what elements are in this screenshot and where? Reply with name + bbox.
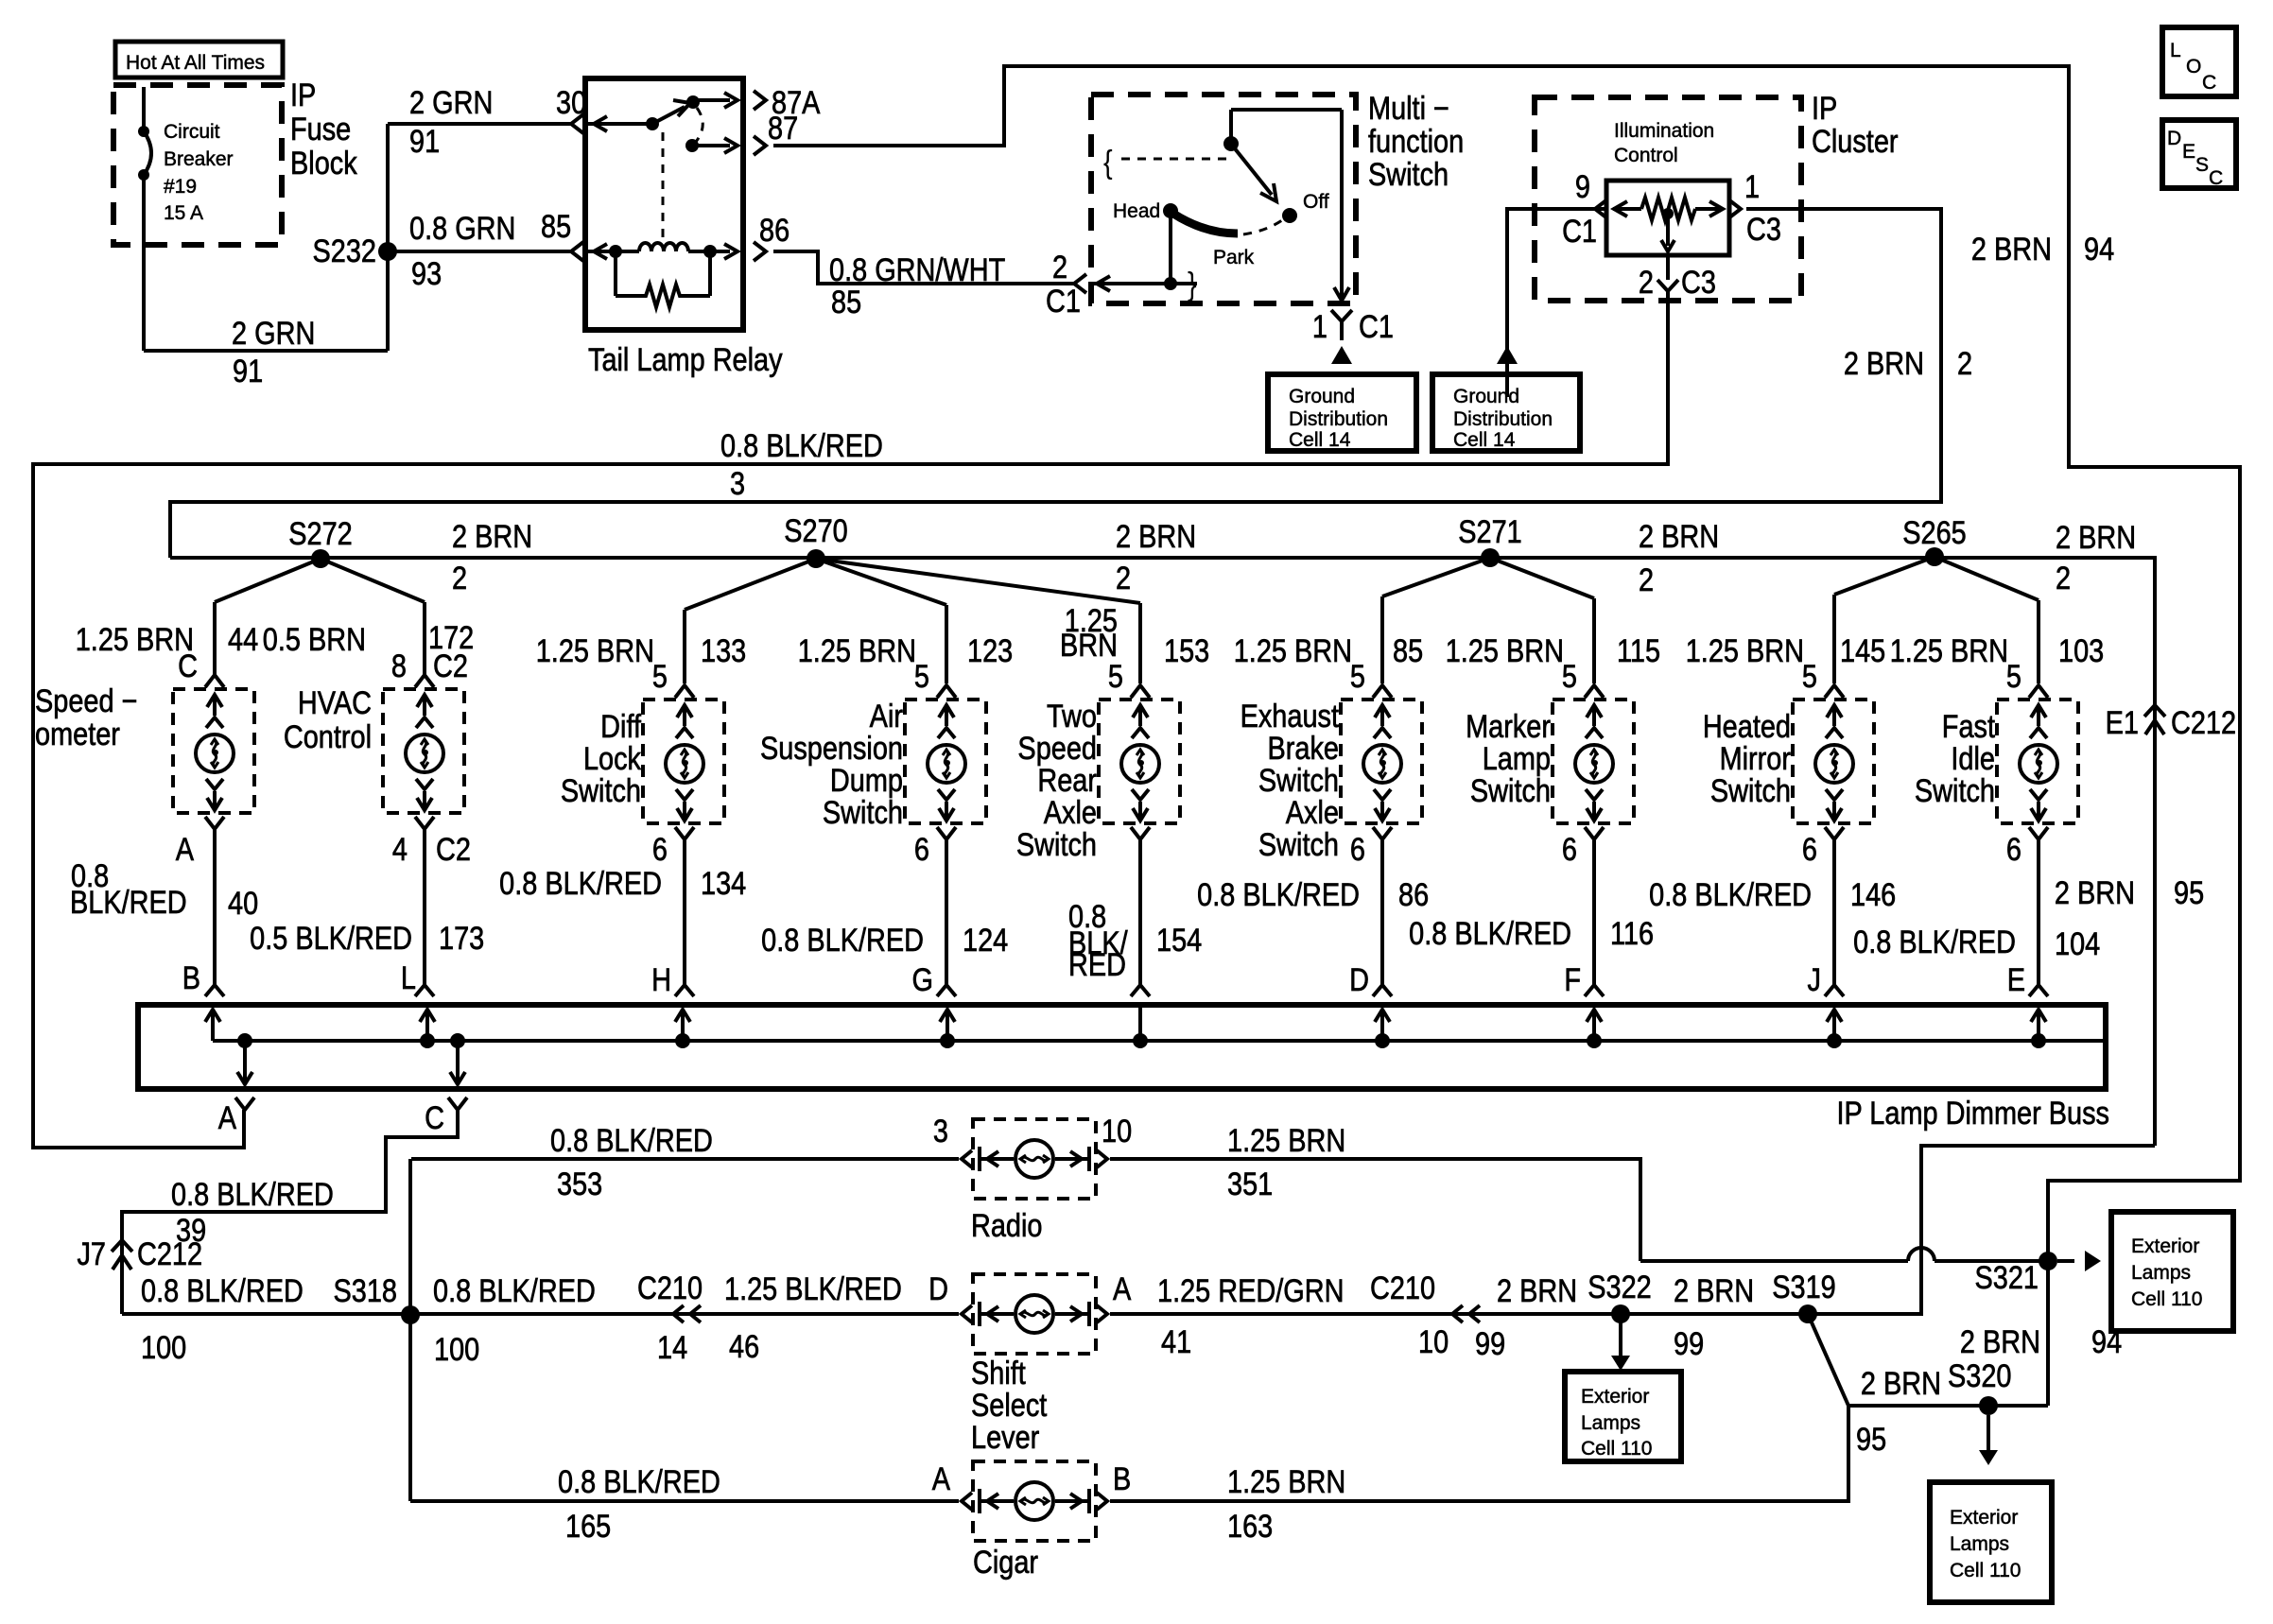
- wire from relay 87 across top: [773, 66, 2240, 1261]
- IP Fuse Block dashed box: [113, 85, 282, 245]
- wire 0.8 BLK/RED 165: [410, 1499, 959, 1503]
- wire 0.8 GRN/WHT 85: [773, 251, 1074, 284]
- connector J7 C212: [112, 1240, 132, 1252]
- svg-text:0.5 BLK/RED: 0.5 BLK/RED: [250, 920, 412, 957]
- ground triangle to left ground box: [1331, 346, 1352, 364]
- svg-text:123: 123: [967, 632, 1013, 669]
- svg-text:3: 3: [730, 465, 745, 502]
- svg-text:Marker: Marker: [1466, 708, 1551, 745]
- svg-text:Lamps: Lamps: [2131, 1262, 2191, 1284]
- svg-text:2 BRN: 2 BRN: [1844, 345, 1924, 382]
- svg-text:E: E: [2182, 141, 2195, 163]
- svg-text:2 GRN: 2 GRN: [232, 315, 315, 352]
- svg-text:Circuit: Circuit: [164, 121, 220, 143]
- svg-text:1.25 BRN: 1.25 BRN: [1227, 1463, 1345, 1500]
- connector C below buss: [448, 1097, 467, 1110]
- potentiometer resistor: [1613, 207, 1641, 211]
- connector A below buss: [235, 1097, 254, 1110]
- svg-text:2: 2: [1639, 264, 1654, 301]
- svg-text:E1: E1: [2106, 704, 2139, 741]
- svg-text:C1: C1: [1359, 308, 1394, 345]
- dimmer buss feed arrow x=1002: [946, 1011, 949, 1041]
- fast idle switch lamp: [1997, 700, 2078, 823]
- wire S270 to diff lock: [685, 559, 816, 610]
- svg-text:116: 116: [1610, 915, 1654, 952]
- svg-text:1: 1: [1312, 308, 1327, 345]
- wire S319 up to E1/C212 riser: [1808, 1146, 2155, 1314]
- svg-text:145: 145: [1840, 632, 1885, 669]
- svg-text:BRN: BRN: [1060, 627, 1118, 664]
- splice S271: [1481, 548, 1500, 567]
- IP Lamp Dimmer Buss box: [138, 1005, 2106, 1089]
- svg-text:Exhaust: Exhaust: [1241, 698, 1340, 734]
- svg-text:6: 6: [1350, 831, 1365, 868]
- svg-text:Lamps: Lamps: [1581, 1412, 1640, 1434]
- svg-text:function: function: [1368, 123, 1464, 160]
- svg-text:Hot At All Times: Hot At All Times: [126, 52, 265, 74]
- svg-text:Switch: Switch: [1368, 156, 1449, 193]
- svg-text:J: J: [1808, 961, 1821, 998]
- pot pin 2 C3 connector: [1666, 255, 1670, 280]
- svg-text:2 BRN: 2 BRN: [1960, 1323, 2040, 1360]
- shift select lever lamp: [962, 1274, 1107, 1354]
- svg-text:2 BRN: 2 BRN: [1674, 1272, 1754, 1309]
- svg-text:Lever: Lever: [971, 1419, 1039, 1456]
- svg-text:S321: S321: [1975, 1259, 2039, 1296]
- svg-text:Shift: Shift: [971, 1355, 1026, 1391]
- pot pin 9 C1: [1595, 199, 1607, 218]
- connectors above IP lamp dimmer buss: [205, 985, 224, 996]
- mfs Head contact: [1169, 211, 1172, 284]
- dimmer buss feed arrow x=452: [425, 1011, 429, 1041]
- wire S270 to air suspension: [816, 559, 946, 605]
- mfs dashed detent line and brace: [1121, 158, 1228, 161]
- svg-text:IP: IP: [290, 77, 316, 113]
- svg-text:Exterior: Exterior: [2131, 1235, 2199, 1257]
- svg-text:L: L: [2170, 40, 2181, 61]
- svg-text:A: A: [932, 1460, 950, 1497]
- svg-text:Cell 110: Cell 110: [1950, 1560, 2021, 1581]
- svg-text:0.8 BLK/RED: 0.8 BLK/RED: [720, 427, 883, 464]
- svg-text:Park: Park: [1213, 247, 1255, 268]
- node S322: [1611, 1304, 1630, 1323]
- svg-text:1.25 BRN: 1.25 BRN: [798, 632, 916, 669]
- svg-text:0.8 BLK/RED: 0.8 BLK/RED: [499, 865, 662, 902]
- svg-text:}: }: [1188, 266, 1197, 302]
- svg-text:C1: C1: [1562, 213, 1597, 250]
- relay pin 30: [571, 114, 583, 133]
- svg-text:86: 86: [759, 212, 789, 249]
- circuit breaker CB#19: [142, 87, 146, 131]
- svg-text:B: B: [1113, 1460, 1131, 1497]
- svg-text:D: D: [2167, 128, 2181, 149]
- svg-text:Axle: Axle: [1286, 794, 1339, 831]
- svg-text:Suspension: Suspension: [760, 730, 903, 767]
- svg-text:353: 353: [557, 1166, 602, 1202]
- svg-text:ometer: ometer: [35, 716, 120, 752]
- svg-text:104: 104: [2055, 925, 2100, 962]
- svg-text:41: 41: [1161, 1323, 1191, 1360]
- svg-text:2 BRN: 2 BRN: [2056, 519, 2136, 556]
- svg-text:Block: Block: [290, 145, 357, 181]
- svg-text:6: 6: [1562, 831, 1577, 868]
- svg-text:A: A: [176, 831, 194, 868]
- two speed rear axle switch lamp: [1099, 700, 1180, 823]
- svg-text:2: 2: [1639, 561, 1654, 598]
- Illumination Control potentiometer box: [1606, 181, 1729, 255]
- svg-text:Mirror: Mirror: [1720, 740, 1791, 777]
- svg-text:Diff: Diff: [600, 708, 641, 745]
- svg-text:Switch: Switch: [1016, 826, 1097, 863]
- wire S272 to speedometer: [215, 559, 321, 602]
- svg-text:Cell 110: Cell 110: [1581, 1438, 1653, 1460]
- svg-text:4: 4: [392, 831, 408, 868]
- S321 arrow to exterior lamps: [2057, 1259, 2074, 1263]
- svg-text:L: L: [401, 959, 416, 996]
- svg-text:Head: Head: [1113, 200, 1160, 222]
- svg-text:C2: C2: [436, 831, 471, 868]
- HVAC Control lamp: [383, 689, 464, 813]
- svg-text:1.25 BRN: 1.25 BRN: [76, 621, 194, 658]
- svg-text:103: 103: [2058, 632, 2104, 669]
- svg-text:S270: S270: [784, 512, 847, 549]
- svg-text:2 BRN: 2 BRN: [1861, 1365, 1941, 1402]
- svg-text:172: 172: [428, 619, 474, 656]
- svg-text:100: 100: [434, 1331, 479, 1368]
- svg-text:0.8 BLK/RED: 0.8 BLK/RED: [1409, 915, 1571, 952]
- svg-text:94: 94: [2084, 231, 2114, 268]
- svg-text:Switch: Switch: [823, 794, 903, 831]
- relay coil pins 85-86: [571, 242, 583, 261]
- dimmer buss feed arrow x=1462: [1380, 1011, 1384, 1041]
- exhaust brake switch lamp: [1341, 700, 1422, 823]
- svg-text:Air: Air: [870, 698, 903, 734]
- svg-text:0.8 GRN: 0.8 GRN: [409, 210, 515, 247]
- cigar lamp: [962, 1461, 1107, 1541]
- wire S271 to exhaust brake: [1382, 558, 1490, 596]
- svg-text:0.8 BLK/RED: 0.8 BLK/RED: [550, 1122, 713, 1159]
- svg-text:Control: Control: [284, 718, 372, 755]
- svg-text:G: G: [912, 961, 933, 998]
- wire S321 down to S320 (2 BRN 94): [2046, 1261, 2050, 1406]
- svg-text:124: 124: [963, 922, 1008, 959]
- svg-text:85: 85: [831, 284, 861, 320]
- svg-text:Heated: Heated: [1703, 708, 1791, 745]
- svg-text:8: 8: [391, 648, 407, 684]
- svg-text:91: 91: [233, 353, 263, 389]
- potentiometer wiper: [1662, 208, 1674, 219]
- svg-text:Distribution: Distribution: [1453, 408, 1553, 430]
- dashed link armature to 87: [696, 108, 703, 142]
- dimmer buss feed arrow x=1686: [1592, 1011, 1596, 1041]
- svg-text:A: A: [1113, 1270, 1131, 1307]
- svg-text:15 A: 15 A: [164, 202, 203, 224]
- node S319: [1798, 1304, 1817, 1323]
- svg-text:E: E: [2007, 961, 2025, 998]
- node S232: [386, 124, 390, 351]
- svg-text:Select: Select: [971, 1387, 1048, 1424]
- svg-text:95: 95: [1856, 1421, 1886, 1458]
- svg-text:Radio: Radio: [971, 1207, 1043, 1244]
- svg-text:Switch: Switch: [1915, 772, 1995, 809]
- svg-text:1.25 BRN: 1.25 BRN: [1227, 1122, 1345, 1159]
- Hot At All Times header box: [115, 42, 283, 78]
- svg-text:0.8 BLK/RED: 0.8 BLK/RED: [433, 1272, 596, 1309]
- marker lamp switch lamp: [1553, 700, 1634, 823]
- wire 1.25 BRN 351: [1110, 1159, 1640, 1261]
- svg-text:C: C: [425, 1099, 444, 1136]
- dimmer buss output arrow C: [456, 1041, 460, 1081]
- svg-text:351: 351: [1227, 1166, 1273, 1202]
- svg-text:Switch: Switch: [1258, 826, 1339, 863]
- Multi-function Switch dashed box: [1091, 95, 1356, 303]
- mfs dashed arc Park-Off: [1243, 220, 1282, 234]
- svg-text:Speed −: Speed −: [35, 682, 137, 719]
- relay plunger dashed: [662, 132, 665, 238]
- mfs Off contact: [1282, 208, 1297, 223]
- svg-text:2: 2: [1116, 560, 1131, 596]
- svg-text:115: 115: [1617, 632, 1660, 669]
- svg-text:Exterior: Exterior: [1950, 1507, 2018, 1529]
- svg-text:146: 146: [1850, 876, 1896, 913]
- wire S271 to marker lamp: [1490, 558, 1594, 598]
- wire 1.25 BRN 163: [1110, 1406, 1848, 1501]
- svg-text:O: O: [2186, 56, 2201, 78]
- relay resistor: [614, 251, 617, 296]
- heated mirror switch lamp: [1793, 700, 1874, 823]
- connector E1 C212: [2144, 705, 2165, 717]
- svg-text:5: 5: [652, 658, 668, 695]
- svg-text:Cell 14: Cell 14: [1453, 429, 1516, 451]
- svg-text:C3: C3: [1681, 264, 1716, 301]
- svg-text:C: C: [2202, 72, 2216, 94]
- svg-text:RED: RED: [1068, 946, 1126, 983]
- wire 0.8 GRN 93 to relay pin 85: [388, 250, 571, 253]
- svg-text:Breaker: Breaker: [164, 148, 234, 170]
- svg-text:1.25 BRN: 1.25 BRN: [1234, 632, 1352, 669]
- svg-text:0.5 BRN: 0.5 BRN: [263, 621, 366, 658]
- Exterior Lamps Cell 110 box (S322): [1565, 1372, 1681, 1461]
- svg-text:9: 9: [1575, 168, 1590, 205]
- svg-text:Switch: Switch: [1258, 762, 1339, 799]
- svg-text:1.25 BLK/RED: 1.25 BLK/RED: [724, 1270, 902, 1307]
- splice S265: [1925, 547, 1944, 566]
- svg-text:Cell 14: Cell 14: [1289, 429, 1351, 451]
- Exterior Lamps Cell 110 box (S320): [1930, 1482, 2052, 1602]
- svg-text:Lamps: Lamps: [1950, 1533, 2009, 1555]
- speedometer lamp: [173, 689, 254, 813]
- svg-text:87: 87: [768, 110, 798, 147]
- svg-text:Switch: Switch: [1710, 772, 1791, 809]
- svg-text:C: C: [2209, 167, 2223, 189]
- node S321: [2039, 1252, 2057, 1270]
- svg-text:Tail Lamp Relay: Tail Lamp Relay: [588, 341, 783, 378]
- svg-text:2 BRN: 2 BRN: [1639, 518, 1719, 555]
- svg-text:40: 40: [228, 885, 258, 922]
- svg-text:C3: C3: [1746, 211, 1781, 248]
- svg-text:{: {: [1103, 144, 1113, 181]
- radio lamp: [962, 1119, 1107, 1199]
- svg-text:B: B: [182, 959, 200, 996]
- svg-text:6: 6: [914, 831, 929, 868]
- relay contact 87: [685, 139, 699, 152]
- svg-text:Two: Two: [1047, 698, 1097, 734]
- svg-text:1.25 BRN: 1.25 BRN: [1686, 632, 1804, 669]
- svg-text:#19: #19: [164, 176, 197, 198]
- two speed axle column pass-through: [1138, 1005, 1142, 1041]
- 2 BRN bus: [170, 558, 2155, 1146]
- splice S270: [807, 549, 825, 568]
- svg-text:2: 2: [1052, 249, 1067, 285]
- svg-text:C212: C212: [2171, 704, 2236, 741]
- svg-text:Cigar: Cigar: [973, 1544, 1038, 1581]
- svg-text:1: 1: [1744, 168, 1760, 205]
- dimmer buss output arrow A: [243, 1041, 247, 1081]
- relay switch armature: [652, 107, 685, 124]
- wire 2 GRN 91 (top) to relay pin 30: [388, 122, 571, 126]
- svg-text:44: 44: [228, 621, 258, 658]
- wire S265 to fast idle: [1935, 557, 2039, 600]
- svg-text:C210: C210: [1370, 1270, 1435, 1306]
- dimmer buss feed arrow x=225: [211, 1011, 215, 1041]
- svg-text:S322: S322: [1588, 1269, 1651, 1305]
- svg-text:5: 5: [1350, 658, 1365, 695]
- svg-text:134: 134: [701, 865, 746, 902]
- svg-text:Lamp: Lamp: [1483, 740, 1551, 777]
- svg-text:6: 6: [652, 831, 668, 868]
- svg-text:5: 5: [2006, 658, 2021, 695]
- svg-text:Ground: Ground: [1289, 386, 1355, 407]
- svg-text:S318: S318: [334, 1272, 397, 1309]
- relay contact 87A: [686, 95, 700, 109]
- svg-text:2: 2: [2056, 560, 2071, 596]
- wire S270 to two speed axle: [816, 559, 1140, 603]
- air suspension dump switch lamp: [905, 700, 986, 823]
- svg-text:99: 99: [1475, 1325, 1505, 1362]
- svg-text:0.8 GRN/WHT: 0.8 GRN/WHT: [829, 251, 1005, 288]
- svg-text:6: 6: [2006, 831, 2021, 868]
- svg-text:0.8 BLK/RED: 0.8 BLK/RED: [1853, 924, 2016, 960]
- wire 2 BRN (S320 row): [1848, 1404, 2048, 1408]
- svg-text:S320: S320: [1948, 1357, 2011, 1394]
- svg-text:HVAC: HVAC: [298, 684, 372, 721]
- svg-text:Rear: Rear: [1037, 762, 1097, 799]
- svg-text:Switch: Switch: [1470, 772, 1551, 809]
- svg-text:91: 91: [409, 123, 440, 160]
- svg-text:133: 133: [701, 632, 746, 669]
- svg-text:10: 10: [1418, 1323, 1449, 1360]
- svg-text:0.8 BLK/RED: 0.8 BLK/RED: [558, 1463, 720, 1500]
- svg-text:Control: Control: [1614, 145, 1678, 166]
- svg-text:5: 5: [1802, 658, 1817, 695]
- svg-text:2: 2: [1957, 345, 1972, 382]
- svg-text:D: D: [1349, 961, 1369, 998]
- LOC box: [2162, 27, 2236, 96]
- svg-text:2 GRN: 2 GRN: [409, 84, 493, 121]
- svg-text:93: 93: [411, 255, 442, 292]
- wire 0.8 BLK/RED 39 (dimmer buss C to J7 C212): [122, 1110, 458, 1314]
- svg-text:S: S: [2195, 154, 2209, 176]
- svg-text:C212: C212: [137, 1235, 202, 1272]
- svg-text:Dump: Dump: [830, 762, 903, 799]
- mfs wiper thick arc Head-Park: [1173, 214, 1238, 233]
- svg-text:Distribution: Distribution: [1289, 408, 1388, 430]
- svg-text:2 BRN: 2 BRN: [2055, 874, 2135, 911]
- svg-text:2: 2: [452, 560, 467, 596]
- svg-text:5: 5: [914, 658, 929, 695]
- svg-text:Exterior: Exterior: [1581, 1386, 1649, 1408]
- svg-text:0.8 BLK/RED: 0.8 BLK/RED: [141, 1272, 304, 1309]
- svg-text:154: 154: [1156, 922, 1202, 959]
- wire pin9 to ground distribution (right): [1507, 209, 1606, 397]
- svg-text:Cell 110: Cell 110: [2131, 1288, 2203, 1310]
- svg-text:Switch: Switch: [561, 772, 641, 809]
- svg-text:F: F: [1564, 961, 1581, 998]
- mfs common pole and arrow: [1223, 136, 1239, 151]
- S320 arrow to exterior lamps: [1987, 1415, 1990, 1454]
- svg-text:153: 153: [1164, 632, 1209, 669]
- svg-text:163: 163: [1227, 1508, 1273, 1545]
- wire S321 horizontal with hop: [1640, 1259, 1908, 1263]
- vertical radio-shift-cigar feeder: [408, 1159, 412, 1501]
- svg-text:Axle: Axle: [1044, 794, 1097, 831]
- svg-text:5: 5: [1562, 658, 1577, 695]
- node S318: [401, 1305, 420, 1324]
- svg-text:2 BRN: 2 BRN: [1116, 518, 1196, 555]
- dimmer buss feed arrow x=2156: [2037, 1011, 2040, 1041]
- svg-text:BLK/RED: BLK/RED: [70, 884, 187, 921]
- svg-text:0.8 BLK/RED: 0.8 BLK/RED: [171, 1176, 334, 1213]
- Exterior Lamps Cell 110 box (S321): [2111, 1212, 2233, 1331]
- node S320: [1979, 1396, 1998, 1415]
- wire 2 GRN 91 (bottom): [144, 349, 388, 353]
- Ground Distribution Cell 14 box (left): [1268, 374, 1416, 451]
- svg-text:Fuse: Fuse: [290, 111, 351, 147]
- svg-text:H: H: [651, 961, 671, 998]
- svg-text:0.8 BLK/RED: 0.8 BLK/RED: [1649, 876, 1812, 913]
- splice S272: [311, 549, 330, 568]
- svg-text:S265: S265: [1902, 514, 1966, 551]
- IP Cluster dashed box: [1535, 97, 1801, 301]
- svg-text:5: 5: [1108, 658, 1123, 695]
- svg-text:S319: S319: [1772, 1269, 1835, 1305]
- Tail Lamp Relay box: [585, 78, 743, 330]
- svg-text:6: 6: [1802, 831, 1817, 868]
- svg-text:Multi −: Multi −: [1368, 90, 1449, 127]
- svg-text:100: 100: [141, 1329, 186, 1366]
- dimmer buss feed arrow x=722: [681, 1011, 685, 1041]
- svg-text:Off: Off: [1303, 191, 1329, 213]
- svg-text:D: D: [928, 1270, 948, 1307]
- diff lock switch lamp: [643, 700, 724, 823]
- svg-text:2 BRN: 2 BRN: [1971, 231, 2052, 268]
- svg-text:1.25 BRN: 1.25 BRN: [1890, 632, 2008, 669]
- pot pin 1 C3: [1728, 199, 1741, 218]
- svg-text:S271: S271: [1458, 513, 1521, 550]
- svg-text:C210: C210: [637, 1270, 703, 1306]
- S322 arrow to exterior lamps: [1619, 1322, 1622, 1359]
- svg-text:95: 95: [2174, 874, 2204, 911]
- DESC box: [2162, 120, 2236, 188]
- wire 1.25 RED/GRN 41: [1110, 1312, 1921, 1316]
- svg-text:2 BRN: 2 BRN: [1497, 1272, 1577, 1309]
- wire 0.8 BLK/RED 3 (IP cluster pin2 to dimmer buss A): [33, 291, 1668, 1148]
- svg-text:S232: S232: [313, 233, 376, 269]
- wire S265 to heated mirror: [1834, 557, 1935, 595]
- svg-text:46: 46: [729, 1328, 759, 1365]
- svg-text:Speed: Speed: [1017, 730, 1097, 767]
- Ground Distribution Cell 14 box (right): [1432, 374, 1580, 451]
